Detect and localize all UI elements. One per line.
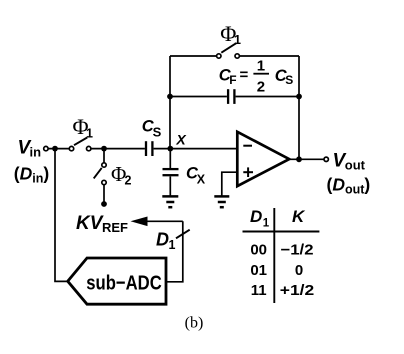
svg-text:F: F — [229, 73, 236, 87]
junction: feedback left — [167, 94, 173, 100]
ground: under CX — [162, 196, 178, 207]
svg-text:1: 1 — [169, 238, 176, 252]
svg-text:−1/2: −1/2 — [281, 242, 314, 259]
svg-text:S: S — [285, 73, 293, 87]
svg-text:D: D — [250, 207, 262, 226]
wire: feedback cap row left — [170, 96, 227, 98]
node KVref dot — [101, 201, 107, 207]
svg-text:REF: REF — [102, 220, 128, 235]
wire: sub-ADC left feed — [55, 149, 67, 282]
wire: phi2 branch vertical — [103, 149, 105, 163]
op-amp plus sign — [243, 171, 253, 173]
table vertical line — [273, 208, 275, 303]
wire: op-amp output — [289, 158, 324, 160]
svg-text:0: 0 — [295, 262, 303, 279]
wire: feedback top-left vertical — [169, 56, 171, 149]
capacitor CX — [163, 169, 179, 175]
terminal: Vin — [44, 146, 48, 150]
svg-text:2: 2 — [257, 78, 265, 95]
terminal: Vout — [324, 157, 328, 161]
svg-text:1: 1 — [263, 217, 270, 229]
wire: node X down to Cx — [169, 149, 171, 168]
ground: op-amp plus input — [214, 196, 229, 207]
svg-text:D: D — [156, 229, 169, 249]
junction: output node — [296, 156, 302, 162]
svg-text:in: in — [30, 145, 42, 160]
wire: top horizontal left of switch — [170, 55, 217, 57]
svg-text:out: out — [345, 158, 366, 173]
svg-text:S: S — [153, 125, 162, 140]
wire: feedback cap row right — [236, 96, 299, 98]
node X junction — [167, 146, 173, 152]
wire: Cx to ground — [169, 177, 171, 196]
capacitor CF — [228, 89, 234, 104]
svg-text:1: 1 — [86, 126, 93, 140]
svg-text:2: 2 — [125, 173, 132, 187]
svg-text:=: = — [240, 67, 249, 84]
svg-text:+1/2: +1/2 — [280, 282, 315, 299]
arrowhead to KVref — [131, 217, 148, 227]
switch PHI2 — [94, 163, 107, 185]
svg-text:(b): (b) — [185, 315, 204, 332]
svg-text:(Din): (Din) — [14, 164, 49, 186]
switch PHI1 top — [217, 43, 240, 58]
bus slash D1 — [176, 230, 190, 239]
wire: top horizontal right of switch — [239, 55, 299, 57]
wire: switch to Cs — [91, 148, 145, 150]
table horizontal line — [243, 231, 320, 233]
svg-text:01: 01 — [250, 262, 267, 279]
wire: Cs to op-amp — [154, 148, 238, 150]
switch PHI1 main — [69, 138, 91, 151]
wire: feedback right vertical — [298, 56, 300, 159]
svg-text:1: 1 — [234, 33, 241, 47]
svg-text:X: X — [197, 173, 206, 187]
svg-text:K: K — [292, 207, 306, 226]
wire: op-amp plus input — [222, 172, 238, 195]
svg-text:X: X — [175, 131, 187, 147]
op-amp minus sign — [243, 145, 252, 147]
wire: main input row — [48, 148, 69, 150]
sub-ADC block — [68, 258, 166, 304]
svg-text:KV: KV — [76, 213, 104, 234]
svg-text:11: 11 — [251, 282, 267, 299]
wire: phi2 lower vertical — [103, 185, 105, 204]
capacitor CS — [146, 141, 152, 156]
svg-text:00: 00 — [250, 242, 267, 259]
op-amp U1 — [237, 132, 289, 186]
wire: arrow shaft to KVref — [145, 220, 183, 222]
wire: sub-ADC output to D1 — [166, 221, 183, 281]
junction: feedback right — [296, 94, 302, 100]
junction: Vin node — [52, 146, 58, 152]
svg-text:sub−ADC: sub−ADC — [86, 271, 162, 294]
junction: phi2 branch node — [101, 146, 107, 152]
svg-text:1: 1 — [257, 58, 265, 75]
